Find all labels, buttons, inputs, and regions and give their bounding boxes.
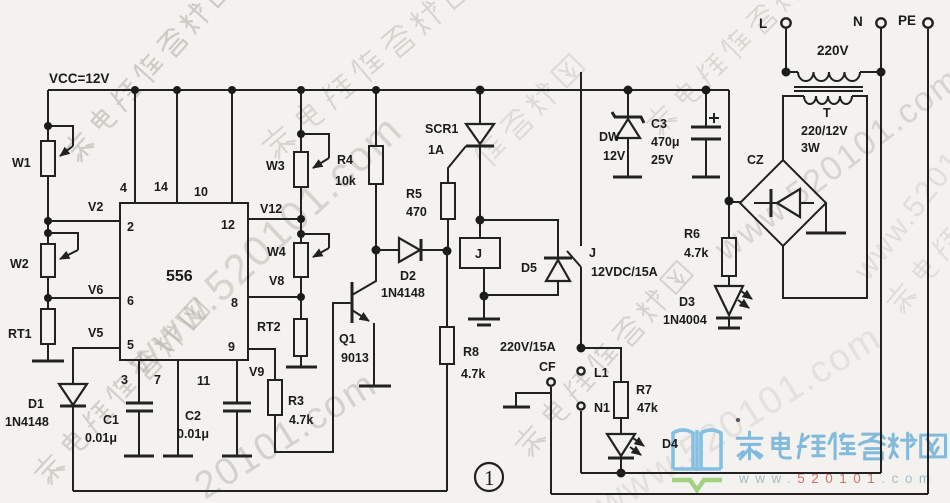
wire pin8 to V8 (248, 296, 301, 298)
svg-text:J: J (475, 247, 482, 261)
resistor R3 (268, 380, 313, 427)
svg-text:RT1: RT1 (8, 327, 32, 341)
ground D3 (718, 327, 740, 330)
svg-text:7: 7 (154, 373, 161, 387)
svg-text:6: 6 (127, 294, 134, 308)
transformer T primary 220V (786, 43, 881, 81)
svg-text:W4: W4 (267, 245, 286, 259)
node D4 bottom (617, 469, 626, 478)
wire R3 to Q1 base (275, 303, 352, 452)
svg-text:D2: D2 (400, 269, 416, 283)
ground DW (613, 176, 642, 179)
svg-text:0.01μ: 0.01μ (85, 431, 117, 445)
svg-text:D4: D4 (662, 437, 678, 451)
potentiometer W3 (266, 134, 329, 187)
node W3 rail tap (297, 86, 305, 94)
capacitor C3 (651, 86, 721, 178)
wire W3 to W4 (300, 187, 302, 243)
svg-text:V6: V6 (88, 283, 103, 297)
svg-text:0.01μ: 0.01μ (177, 427, 209, 441)
ground relay (468, 296, 500, 325)
svg-text:12VDC/15A: 12VDC/15A (591, 265, 658, 279)
bridge rectifier CZ (740, 153, 826, 246)
svg-text:20101.com: 20101.com (188, 363, 385, 503)
svg-text:10k: 10k (335, 174, 356, 188)
svg-text:N1: N1 (594, 401, 610, 415)
pin 7 wire (154, 360, 178, 456)
svg-text:556: 556 (166, 268, 193, 285)
svg-text:14: 14 (154, 180, 168, 194)
op-amp U1 556 timer box (120, 203, 248, 360)
node W4 wiper tap (297, 230, 305, 238)
svg-text:L: L (759, 16, 767, 31)
svg-text:D3: D3 (679, 295, 695, 309)
wire pin12 to V12 (248, 218, 301, 220)
wire pin2 (48, 220, 120, 222)
relay coil J (460, 220, 500, 296)
svg-text:1A: 1A (428, 143, 444, 157)
svg-text:V2: V2 (88, 200, 103, 214)
node V2 (44, 217, 52, 225)
svg-text:4.7k: 4.7k (289, 413, 313, 427)
svg-text:9013: 9013 (341, 351, 369, 365)
node dot W1 top (44, 122, 52, 130)
thermistor RT1 (8, 309, 55, 344)
svg-text:L1: L1 (594, 366, 609, 380)
pin 4 (120, 86, 139, 203)
svg-text:3: 3 (121, 373, 128, 387)
node N junction (877, 68, 886, 77)
svg-text:CF: CF (539, 360, 556, 374)
node relay bottom (480, 292, 489, 301)
ground pin7 (163, 455, 193, 458)
transformer T core (794, 87, 863, 91)
svg-text:N: N (853, 14, 863, 29)
svg-text:R3: R3 (288, 394, 304, 408)
resistor R8 (440, 251, 485, 491)
svg-text:T: T (823, 106, 831, 120)
wire pin9 to R3 (248, 349, 275, 380)
svg-text:220V: 220V (817, 43, 849, 58)
svg-text:12: 12 (221, 218, 235, 232)
svg-text:1N4004: 1N4004 (663, 313, 707, 327)
svg-text:V5: V5 (88, 326, 103, 340)
wire inner bottom loop (581, 472, 881, 474)
pin 10 (194, 86, 236, 203)
wire VCC top rail (48, 89, 729, 91)
LED D4 (607, 434, 678, 473)
svg-text:SCR1: SCR1 (425, 122, 458, 136)
potentiometer W2 (10, 233, 78, 277)
svg-text:V9: V9 (249, 365, 264, 379)
svg-text:DW: DW (599, 130, 620, 144)
svg-text:PE: PE (898, 13, 916, 28)
relay contact switch (567, 72, 658, 348)
transistor Q1 (339, 250, 376, 385)
svg-text:R5: R5 (406, 187, 422, 201)
resistor R4 (335, 86, 383, 188)
svg-text:V12: V12 (260, 202, 282, 216)
svg-text:R4: R4 (337, 153, 353, 167)
potentiometer W4 (267, 234, 329, 277)
ground RT2 (286, 356, 317, 367)
svg-text:C2: C2 (185, 409, 201, 423)
node V8 (297, 293, 305, 301)
svg-text:W1: W1 (12, 156, 31, 170)
svg-text:R7: R7 (636, 383, 652, 397)
svg-text:1N4148: 1N4148 (381, 286, 425, 300)
ground CF (503, 393, 551, 407)
node R5/D2/R8 (443, 247, 452, 256)
thyristor SCR1 (425, 86, 494, 221)
wire D1 to bottom rail (72, 406, 74, 491)
pin 3 wire (121, 360, 139, 403)
ground C2 (222, 455, 252, 458)
svg-text:8: 8 (231, 296, 238, 310)
svg-text:W3: W3 (266, 159, 285, 173)
svg-text:R6: R6 (684, 227, 700, 241)
wire left rail x=48 (47, 90, 49, 141)
resistor R5 (406, 183, 455, 251)
svg-text:2: 2 (127, 220, 134, 234)
svg-text:4.7k: 4.7k (684, 246, 708, 260)
svg-text:4.7k: 4.7k (461, 367, 485, 381)
terminal L (759, 16, 791, 72)
potentiometer W1 (12, 126, 73, 176)
svg-text:VCC=12V: VCC=12V (49, 71, 109, 86)
wire bottom rail (73, 490, 447, 492)
transformer T secondary (783, 96, 867, 298)
pin 11 wire (197, 360, 237, 403)
svg-text:J: J (589, 246, 596, 260)
svg-text:D5: D5 (521, 261, 537, 275)
wire W1 to W2 (47, 176, 49, 244)
resistor R6 (684, 227, 736, 286)
svg-text:C3: C3 (651, 117, 667, 131)
node V12 (297, 215, 305, 223)
terminal L1 (577, 366, 608, 380)
capacitor C2 (177, 403, 251, 456)
thermistor RT2 (257, 319, 307, 356)
LED D3 (663, 286, 752, 328)
wire pin6 (48, 297, 120, 299)
diode D5 (484, 258, 572, 295)
terminal N1 (577, 401, 610, 473)
terminal CF (539, 360, 556, 494)
svg-text:1: 1 (484, 466, 495, 490)
terminal PE (898, 13, 933, 494)
ground bridge (806, 203, 846, 233)
node SCR cathode (476, 216, 485, 225)
wire VCC to bridge node (728, 90, 730, 238)
svg-text:R8: R8 (463, 345, 479, 359)
svg-text:W2: W2 (10, 257, 29, 271)
capacitor C1 (85, 403, 153, 456)
ground RT1 (32, 360, 64, 363)
svg-text:C1: C1 (103, 413, 119, 427)
node switch output (577, 344, 586, 353)
terminal N (853, 14, 886, 473)
svg-text:220/12V: 220/12V (801, 124, 848, 138)
wire R4 to collector node (375, 184, 377, 250)
wire node to D5 top (480, 220, 558, 257)
wire pin5 (73, 348, 120, 384)
svg-text:D1: D1 (28, 397, 44, 411)
resistor R7 (581, 348, 658, 434)
wire W2 to RT1 (47, 277, 49, 309)
ground C1 (124, 455, 154, 458)
diode D2 (376, 238, 447, 300)
node V6 (44, 294, 52, 302)
pin 14 (154, 86, 181, 203)
ground Q1 emitter (359, 385, 391, 388)
svg-text:Q1: Q1 (339, 332, 356, 346)
zener DW (599, 86, 644, 178)
svg-text:5: 5 (127, 338, 134, 352)
svg-text:1N4148: 1N4148 (5, 415, 49, 429)
svg-text:470μ: 470μ (651, 135, 680, 149)
svg-text:V8: V8 (269, 274, 284, 288)
diode D1 (5, 384, 87, 429)
svg-text:470: 470 (406, 205, 427, 219)
svg-text:47k: 47k (637, 401, 658, 415)
svg-text:11: 11 (197, 374, 210, 388)
svg-text:CZ: CZ (747, 153, 764, 167)
wire W3 column (300, 90, 302, 152)
svg-text:12V: 12V (603, 149, 626, 163)
svg-text:10: 10 (194, 185, 208, 199)
circled number 1 (475, 463, 503, 491)
svg-text:4: 4 (120, 181, 127, 195)
svg-text:220V/15A: 220V/15A (500, 340, 556, 354)
svg-text:9: 9 (228, 340, 235, 354)
node collector/D2 (372, 246, 381, 255)
node bridge output (725, 197, 734, 206)
node L junction (782, 68, 791, 77)
svg-text:25V: 25V (651, 153, 674, 167)
svg-text:RT2: RT2 (257, 320, 281, 334)
wire outer bottom loop (551, 493, 928, 495)
svg-text:3W: 3W (801, 141, 820, 155)
wire RT1 to ground (47, 344, 49, 361)
node W3 wiper tap (297, 130, 305, 138)
ground C3 (692, 176, 720, 179)
